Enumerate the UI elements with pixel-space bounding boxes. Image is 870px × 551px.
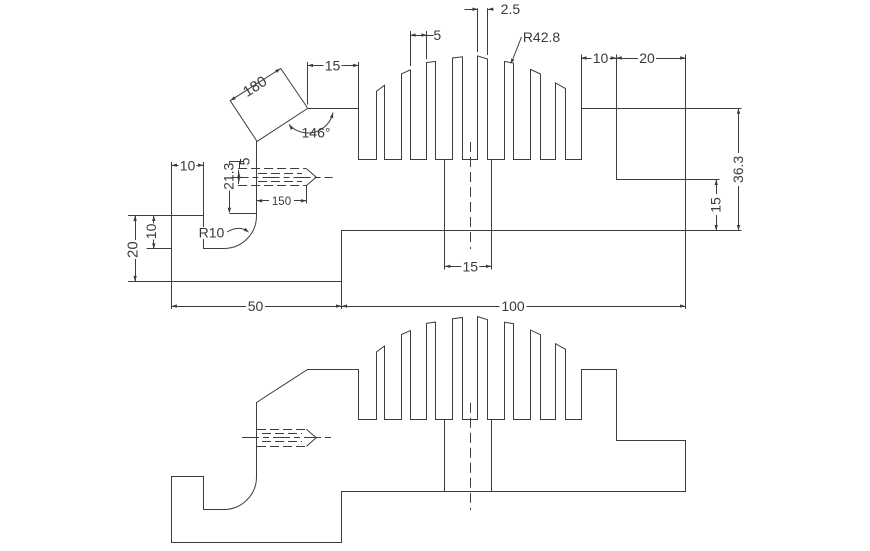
dimension 10 (right shoulder): text [592,53,610,64]
bottom view: vertical centreline of central slot [470,403,472,510]
top view: central deep slot left wall [444,159,446,230]
dimension 50: dimension line [171,306,341,308]
svg-text:2.5: 2.5 [501,1,521,17]
dimension 15 (central slot): extension lines [444,231,446,270]
dimension 10 (left step): text [145,224,157,240]
dimension 15 (right step height): text [709,194,722,215]
bottom view: tapped hole major diameter bottom (hidden) [257,446,306,448]
svg-text:5: 5 [433,27,441,43]
dimension 5 (thread): tick arrows [238,170,240,184]
svg-text:50: 50 [248,298,264,314]
dimension 100: dimension line [342,306,686,308]
dimension 20 (left height): extension lines [128,215,171,217]
bottom view: central deep slot right wall [491,420,493,491]
dimension 5 (slot width): dimension line [410,35,433,37]
dimension 20 (right step): text [638,53,656,64]
svg-text:20: 20 [639,50,655,66]
svg-text:100: 100 [501,298,525,314]
dimension 21.3 (hole depth): dimension line [229,162,231,164]
svg-text:10: 10 [180,157,196,173]
svg-text:150: 150 [272,196,291,208]
bottom view: tapped hole major diameter top (hidden) [257,429,306,431]
svg-text:5: 5 [237,157,253,165]
dimension 10 (left step): dimension line [153,216,155,249]
dimension 150 (hole): text [269,197,294,207]
dimension 15 (shoulder): extension lines [307,62,309,105]
top view: tapped hole minor diameter top (hidden) [258,173,302,175]
top view: vertical centreline of central slot [470,142,472,249]
svg-text:20: 20 [124,241,141,258]
svg-text:146°: 146° [302,125,331,141]
svg-text:36.3: 36.3 [730,156,746,183]
dimension 100: text [500,301,527,312]
svg-text:10: 10 [143,223,159,239]
dimension 150 (hole): extension line [306,186,308,204]
bottom view: hole centreline [242,437,333,439]
svg-text:21.3: 21.3 [221,162,237,189]
fillet label R10: text [196,227,227,239]
svg-text:R42.8: R42.8 [523,29,561,45]
bottom view: central deep slot left wall [444,420,446,491]
rotated square detail (180 piece) [230,69,307,142]
top view: tapped hole major diameter bottom (hidden) [238,185,306,187]
dimension 50: text [246,301,265,312]
dimension 2.5 (centre fin): dimension line [465,9,478,11]
dimension 15 (central slot): dimension line [445,266,492,268]
dimension 150 (hole): dimension line [257,200,307,202]
fillet label R10: leader [227,228,247,232]
dimension 10 (right shoulder): extension lines [581,55,583,109]
svg-text:10: 10 [593,50,609,66]
dimension 15 (central slot): text [461,261,479,272]
dimension 2.5 (centre fin): extension lines [477,8,479,52]
dimension 5 (slot width): extension lines [410,31,412,66]
top view: tapped hole major diameter top (hidden) [238,168,306,170]
dimension 15 (right step height): dimension line [716,180,718,231]
top view: central deep slot right wall [491,159,493,230]
bottom view: tapped hole minor diameter top (hidden) [262,433,302,435]
dimension 20 (left height): dimension line [135,216,137,282]
svg-text:15: 15 [463,258,479,274]
dimension 50: extension lines [171,281,173,309]
dimension 15 (right step height): extension line [686,179,720,181]
top view: heat sink profile outline with fins [172,56,686,282]
dimension 10 (wall width): text [179,160,197,171]
svg-text:15: 15 [708,197,724,213]
dimension 15 (shoulder): text [324,60,342,71]
dimension 10 (right shoulder): dimension line [581,58,616,60]
bottom view: heat sink profile outline with fins [172,317,686,543]
bottom view: tapped hole minor diameter bottom (hidden) [262,441,302,443]
angle dimension 146°: arc [289,113,333,133]
svg-text:15: 15 [325,57,341,73]
dimension 100: extension line [685,231,687,310]
dimension 20 (right step): dimension line [616,58,685,60]
dimension 20 (right step): extension line [685,55,687,180]
dimension 10 (wall width): dimension line [171,165,203,167]
dimension 36.3: dimension line [738,108,740,230]
top view: drill point [306,169,316,186]
top view: hole centreline [232,177,333,179]
dimension 15 (shoulder): dimension line [308,65,359,67]
dimension 36.3: text [731,153,746,186]
dimension 20 (left height): text [124,240,137,259]
svg-text:R10: R10 [199,225,225,241]
radius label R42.8: leader [513,37,522,59]
bottom view: drill point [306,429,316,446]
dimension 36.3: extension lines [616,108,741,110]
dimension 21.3: bottom extension line [229,213,256,215]
dimension 10 (left step): extension line [147,248,172,250]
top view: tapped hole minor diameter bottom (hidden) [258,181,302,183]
dimension 180: arrows on edge [230,96,236,100]
